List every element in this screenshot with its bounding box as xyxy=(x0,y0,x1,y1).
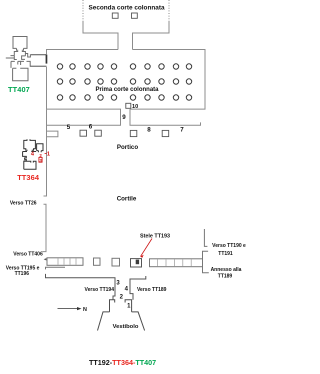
svg-text:Verso TT194: Verso TT194 xyxy=(85,287,115,293)
svg-text:10: 10 xyxy=(132,104,138,110)
svg-text:1: 1 xyxy=(127,304,131,310)
svg-text:5: 5 xyxy=(67,124,71,131)
svg-text:TT192-TT364-TT407: TT192-TT364-TT407 xyxy=(89,358,156,367)
svg-text:Annesso alla: Annesso alla xyxy=(211,267,242,273)
svg-text:2: 2 xyxy=(120,295,124,301)
svg-text:Vestibolo: Vestibolo xyxy=(113,324,139,330)
svg-text:TT196: TT196 xyxy=(15,271,30,277)
svg-text:Seconda corte colonnata: Seconda corte colonnata xyxy=(89,5,165,12)
svg-text:Verso TT26: Verso TT26 xyxy=(10,201,37,207)
svg-text:4: 4 xyxy=(125,287,129,293)
svg-text:TT364: TT364 xyxy=(17,173,40,182)
svg-text:8: 8 xyxy=(147,127,151,134)
svg-text:1: 1 xyxy=(47,151,50,157)
svg-text:TT189: TT189 xyxy=(218,273,233,279)
svg-text:9: 9 xyxy=(122,114,126,121)
svg-text:6: 6 xyxy=(89,124,93,131)
svg-text:Verso TT406: Verso TT406 xyxy=(13,251,43,257)
svg-text:Cortile: Cortile xyxy=(117,195,137,202)
svg-text:Prima corte colonnata: Prima corte colonnata xyxy=(95,87,159,93)
svg-text:N: N xyxy=(83,307,87,313)
svg-text:TT191: TT191 xyxy=(218,251,233,257)
svg-text:TT407: TT407 xyxy=(8,85,30,94)
svg-text:Verso TT190 e: Verso TT190 e xyxy=(212,243,246,249)
svg-text:3: 3 xyxy=(116,280,120,286)
svg-text:Portico: Portico xyxy=(117,144,139,151)
svg-text:Verso TT189: Verso TT189 xyxy=(137,287,167,293)
svg-text:7: 7 xyxy=(180,127,184,134)
svg-text:Stele TT193: Stele TT193 xyxy=(140,233,170,239)
svg-text:4: 4 xyxy=(31,151,35,157)
